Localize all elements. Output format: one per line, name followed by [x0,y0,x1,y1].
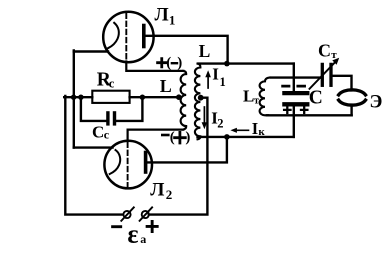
svg-text:т: т [331,49,337,61]
svg-text:2: 2 [217,117,223,131]
battery plus sign [147,221,157,231]
tube U1 (Л1) envelope [103,12,153,62]
arrowhead I2 [202,122,208,129]
svg-text:(: ( [170,130,175,146]
tube U1 cathode [108,23,119,48]
svg-text:C: C [318,41,331,61]
wire Cc left branch [81,97,106,121]
svg-text:): ) [185,130,190,146]
battery terminal left [123,211,130,218]
svg-text:т: т [254,95,259,106]
inductor L grid coil [181,71,187,130]
tube U1 anode [142,26,146,47]
inductor anode coil right winding [195,64,201,140]
svg-text:1: 1 [169,13,176,28]
svg-text:I: I [212,64,219,83]
wire Rc right to coil tap [130,96,179,98]
tube U2 grid [127,143,129,189]
svg-text:Э: Э [370,91,383,112]
inductor Lt tank coil [260,78,270,116]
svg-text:к: к [258,126,265,138]
element E top arc [339,90,366,95]
svg-text:L: L [243,86,254,105]
svg-text:а: а [140,232,146,246]
wire coil L bottom to U2 grid [128,130,184,141]
minus sign grid top [172,62,177,64]
battery minus sign [113,225,121,228]
arrowhead Ik [230,128,237,133]
junction node dots [71,95,76,100]
wire tank bottom [267,114,352,116]
svg-text:L: L [160,76,172,96]
plus sign grid bottom [175,132,186,143]
wire element E bottom lead [350,105,352,116]
wire cathode U1 to node row [74,50,108,52]
capacitor C plus signs [284,107,307,113]
wire Cc right branch [117,97,143,121]
arrowhead Ct [332,58,339,65]
wire center tap to battery plus [149,98,208,215]
arrow Ik [236,129,249,131]
svg-text:(: ( [166,55,171,71]
svg-text:C: C [92,122,104,141]
wire node row to Rc [64,96,92,98]
svg-text:ε: ε [127,220,138,249]
variable capacitor Ct plates [321,64,324,85]
svg-text:C: C [309,88,323,109]
arrow I1 [207,76,209,89]
plus sign grid top [158,59,166,67]
svg-text:c: c [109,77,115,91]
capacitor C minus signs [283,85,305,88]
svg-text:Л: Л [150,179,164,200]
svg-text:2: 2 [166,187,173,202]
tube U2 (Л2) envelope [104,141,152,189]
wire U2 anode to bottom junction [147,137,227,163]
tube U1 grid [125,14,127,62]
capacitor C plates [284,91,307,95]
arrow I2 [203,107,205,124]
wire U1 anode to top node [144,36,228,64]
variable capacitor Ct arrow [310,62,336,89]
wire U1 grid lead [126,62,183,71]
svg-text:I: I [252,119,258,138]
wire capacitor C top lead [293,64,295,91]
wire to U2 cathode [74,146,113,148]
svg-text:c: c [104,128,110,142]
tube U2 anode [144,153,148,173]
svg-text:1: 1 [220,75,226,89]
wire anode coil bottom [198,136,294,138]
svg-text:Л: Л [155,5,169,26]
minus sign grid bottom [162,134,168,137]
capacitor Cc [106,113,109,124]
wire Ct to element [333,76,352,91]
wire cathode bus vertical [73,50,75,147]
wire tank top [271,76,320,78]
element E bottom arc [339,100,366,105]
wire top plate bus [199,62,294,64]
tube U2 cathode [110,150,121,174]
battery terminal right [142,211,149,218]
wire capacitor C bottom lead [293,106,295,137]
svg-text:): ) [177,55,182,71]
wire left branch to battery minus [65,96,122,215]
arrowhead I1 [205,70,211,77]
resistor Rc [92,91,129,103]
svg-text:L: L [199,41,211,61]
